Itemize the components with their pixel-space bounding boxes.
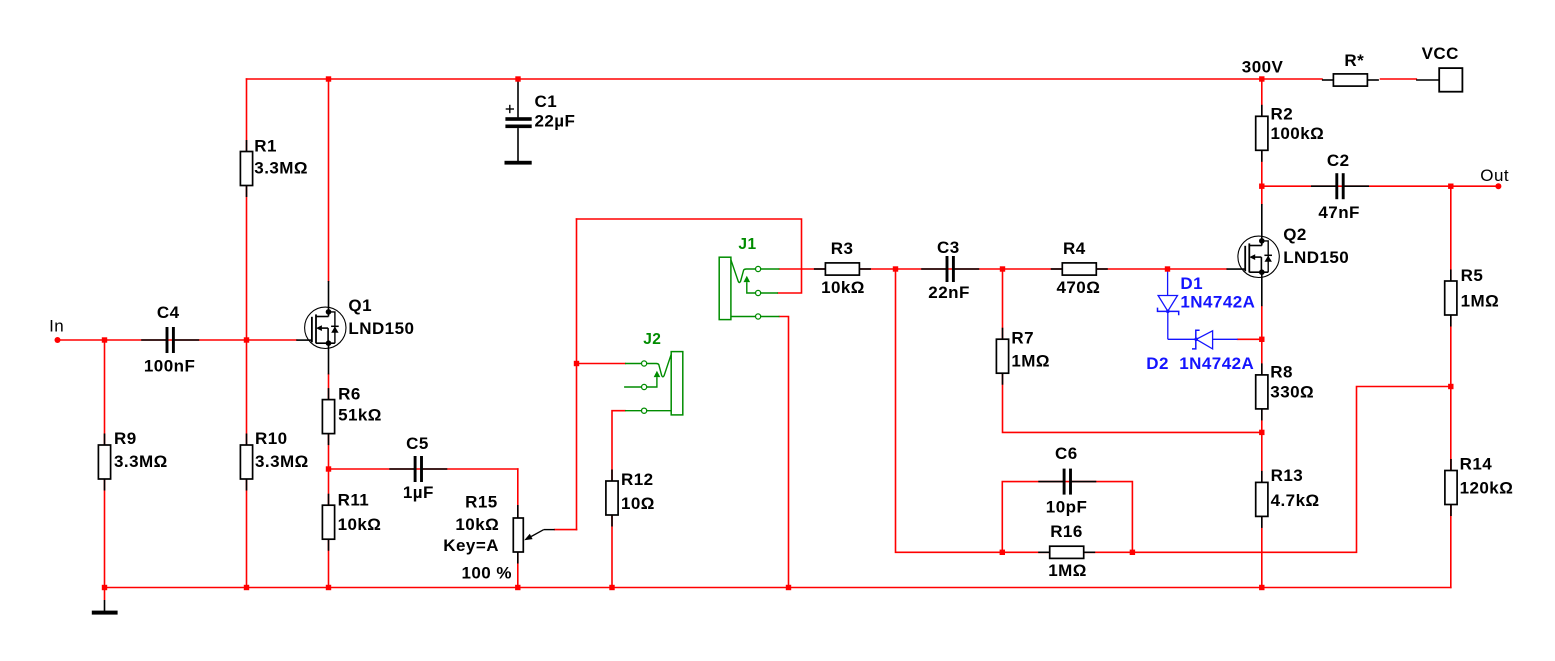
resistor R10 — [240, 434, 252, 491]
svg-text:100nF: 100nF — [144, 357, 195, 376]
svg-text:R5: R5 — [1461, 266, 1484, 285]
wire C2 row to Out — [1262, 185, 1499, 187]
ground — [92, 588, 118, 615]
wire left vertical R1/R10 branch — [246, 79, 248, 588]
transistor Q1 (LND150 MOSFET) — [296, 281, 346, 374]
ground bar below C1 — [505, 161, 532, 165]
capacitor C5 — [389, 456, 447, 482]
svg-text:100kΩ: 100kΩ — [1271, 124, 1325, 143]
wire Q1 source to R6 R11 bottom — [328, 374, 330, 587]
svg-text:VCC: VCC — [1422, 44, 1459, 63]
resistor R5 — [1445, 270, 1457, 327]
capacitor C2 — [1311, 173, 1369, 199]
svg-text:R13: R13 — [1271, 466, 1304, 485]
capacitor C6 — [1038, 469, 1096, 495]
svg-text:C4: C4 — [157, 303, 180, 322]
connector J1 (phone jack) — [719, 257, 779, 319]
wire J1 pin3 down — [780, 317, 789, 588]
node Out terminal — [1495, 183, 1501, 189]
node In terminal — [55, 337, 61, 343]
wire junctions — [102, 76, 1454, 590]
resistor R14 — [1445, 459, 1457, 516]
svg-text:R12: R12 — [621, 470, 654, 489]
svg-text:R10: R10 — [255, 429, 288, 448]
resistor R1 — [240, 140, 252, 197]
svg-text:3.3MΩ: 3.3MΩ — [254, 159, 308, 178]
svg-text:R11: R11 — [338, 491, 370, 510]
wire R5 R14 vertical — [1450, 186, 1452, 587]
svg-text:C5: C5 — [406, 434, 429, 453]
svg-text:10Ω: 10Ω — [621, 494, 655, 513]
capacitor C3 — [921, 256, 979, 282]
svg-text:1MΩ: 1MΩ — [1461, 291, 1500, 310]
wire bottom rail — [105, 587, 1451, 589]
svg-text:R3: R3 — [831, 239, 854, 258]
capacitor C1 — [505, 81, 531, 161]
wire R7 branch — [1003, 269, 1262, 432]
capacitor C4 — [141, 327, 199, 353]
potentiometer R15 — [513, 505, 554, 564]
svg-text:J1: J1 — [738, 236, 756, 253]
resistor R2 — [1256, 105, 1268, 162]
svg-text:R9: R9 — [114, 429, 137, 448]
svg-text:C1: C1 — [535, 92, 558, 111]
svg-text:Key=A: Key=A — [443, 536, 499, 555]
svg-text:330Ω: 330Ω — [1270, 382, 1314, 401]
wire J2 pin1 stub — [577, 363, 626, 365]
connector J2 (phone jack) — [624, 352, 683, 415]
svg-text:R*: R* — [1344, 51, 1364, 70]
resistor R3 — [814, 263, 871, 275]
wire R16 feedback branch — [896, 269, 1451, 552]
svg-text:Out: Out — [1480, 166, 1509, 185]
svg-text:LND150: LND150 — [1283, 248, 1349, 267]
wire Q2 source down to bottom — [1261, 306, 1263, 587]
svg-text:C6: C6 — [1055, 444, 1078, 463]
svg-text:R15: R15 — [465, 493, 498, 512]
svg-text:R4: R4 — [1063, 239, 1086, 258]
svg-text:10kΩ: 10kΩ — [338, 515, 382, 534]
svg-text:R2: R2 — [1271, 105, 1294, 124]
resistor R7 — [996, 328, 1008, 385]
diode D2 (zener 1N4742A) — [1168, 330, 1238, 349]
wire top rail — [247, 78, 1262, 80]
resistor R12 — [606, 470, 618, 527]
svg-text:C3: C3 — [937, 238, 960, 257]
svg-text:47nF: 47nF — [1318, 203, 1359, 222]
svg-text:D1: D1 — [1180, 274, 1203, 293]
wire J2 pin3 to R12 — [612, 411, 625, 588]
resistor R13 — [1256, 471, 1268, 528]
svg-text:R14: R14 — [1460, 455, 1493, 474]
power symbol VCC — [1416, 68, 1462, 92]
svg-text:1µF: 1µF — [403, 483, 434, 502]
resistor R8 — [1256, 363, 1268, 420]
resistor R* — [1322, 74, 1379, 86]
resistor R11 — [322, 494, 334, 551]
wire 300V to R* lead — [1262, 78, 1322, 80]
svg-text:4.7kΩ: 4.7kΩ — [1271, 491, 1320, 510]
wire R15 wiper to vertical riser — [555, 529, 577, 531]
resistor R16 — [1038, 546, 1095, 558]
svg-text:3.3MΩ: 3.3MΩ — [255, 452, 309, 471]
wire Q1 drain vertical — [328, 79, 330, 281]
svg-text:22nF: 22nF — [928, 283, 969, 302]
svg-text:LND150: LND150 — [348, 319, 414, 338]
svg-text:1MΩ: 1MΩ — [1011, 351, 1050, 370]
svg-text:In: In — [49, 317, 64, 336]
svg-text:300V: 300V — [1242, 58, 1284, 77]
svg-text:51kΩ: 51kΩ — [338, 406, 382, 425]
svg-text:1MΩ: 1MΩ — [1048, 561, 1087, 580]
resistor R4 — [1051, 263, 1108, 275]
svg-text:1N4742A: 1N4742A — [1180, 293, 1255, 312]
svg-text:120kΩ: 120kΩ — [1460, 479, 1514, 498]
svg-text:R7: R7 — [1011, 328, 1034, 347]
svg-text:Q1: Q1 — [348, 296, 372, 315]
wire R2 vertical — [1261, 79, 1263, 204]
wire input rail — [58, 339, 297, 341]
svg-text:100 %: 100 % — [462, 563, 512, 582]
svg-text:3.3MΩ: 3.3MΩ — [114, 452, 168, 471]
svg-text:Q2: Q2 — [1283, 225, 1307, 244]
wire riser x576 — [576, 219, 578, 530]
svg-text:10pF: 10pF — [1046, 497, 1087, 516]
svg-text:10kΩ: 10kΩ — [821, 278, 865, 297]
svg-text:R1: R1 — [254, 137, 277, 156]
svg-text:J2: J2 — [643, 331, 661, 348]
svg-text:C2: C2 — [1327, 151, 1350, 170]
resistor R6 — [322, 388, 334, 445]
svg-text:R6: R6 — [338, 385, 361, 404]
svg-text:R8: R8 — [1270, 362, 1293, 381]
transistor Q2 (LND150 MOSFET) — [1227, 204, 1280, 306]
svg-text:D2 1N4742A: D2 1N4742A — [1146, 354, 1254, 373]
wire J1 pin1 to main row — [780, 268, 1227, 270]
wire D2 to Q2 source junction — [1238, 338, 1262, 340]
wire top link J2 to J1 — [577, 219, 802, 293]
wire C5 corner down to R15 — [517, 469, 519, 588]
wire R* to VCC — [1381, 78, 1417, 80]
wire C6 loop — [1002, 482, 1132, 553]
svg-text:470Ω: 470Ω — [1057, 278, 1101, 297]
diode D1 (zener 1N4742A) — [1158, 269, 1179, 339]
svg-text:10kΩ: 10kΩ — [455, 515, 499, 534]
wire C5 row — [329, 468, 518, 470]
resistor R9 — [98, 434, 110, 491]
svg-text:R16: R16 — [1050, 522, 1083, 541]
svg-text:22µF: 22µF — [535, 112, 576, 131]
wire R9 branch — [104, 340, 106, 588]
